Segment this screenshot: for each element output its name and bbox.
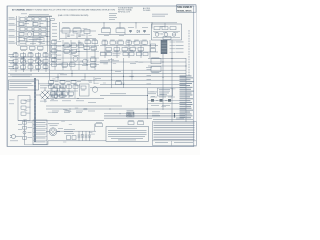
tube socket U1 [161,37,171,54]
wire: detector links [55,91,63,98]
tube V1 [27,32,31,36]
terminal label T2 [9,23,17,25]
note text right [143,7,151,12]
resistor R34 [91,47,97,51]
dial lamp table [33,120,47,145]
IF transformer Z1 [62,27,70,33]
wire: power chain [18,120,48,145]
bus labels [60,60,152,79]
capacitor C4 [27,28,32,31]
part number box [177,5,197,13]
capacitor C2 [41,18,46,21]
svg-text:IN OHMS: IN OHMS [143,10,151,12]
audio component grid [49,84,79,97]
bus drop ticks [58,70,133,84]
resistor R13 [60,88,66,91]
capacitor C12 [170,27,176,30]
label above table [153,118,193,121]
wire: riser x111 [110,58,113,88]
trimmer CT1 [155,33,159,37]
trimmer CT2 [164,33,168,37]
title text [12,8,115,11]
service table [153,122,197,146]
wire: bus y58 [148,58,186,60]
filter choke L6 [151,59,161,64]
wire loop left [18,96,30,121]
junction dots buses [163,58,187,78]
wire: riser x172 [171,40,173,122]
output transformer T4 [168,99,171,102]
wire grid audio [47,84,78,98]
tube V4 [73,55,79,61]
speaker labels row [150,96,175,99]
labels under y98 [50,101,96,103]
arrow labels [176,113,185,119]
wire: bus y73 [8,73,186,75]
bridge rectifier BR2 [46,123,63,135]
svg-text:MODEL 5R10C: MODEL 5R10C [177,10,192,12]
wire: bus y62 [50,61,186,63]
resistor R32 [71,50,77,54]
resistor R35 [62,63,68,68]
bridge rectifier BR1 [36,84,64,103]
wire: left riser [16,16,18,45]
wire: bus y70 [50,69,186,71]
terminal label T5 [9,41,17,43]
coupling loop [80,84,90,96]
capacitor C13 [52,94,58,97]
connector J2 [138,120,144,125]
coil L1 [20,18,25,21]
speaker lower labels [152,112,160,117]
capacitor C37 [60,81,70,84]
resistor R30 [78,43,84,48]
resistor R38 [71,81,81,84]
terminal label T3 [9,29,17,31]
capacitor C5 [41,28,46,31]
tube V6 [92,87,98,93]
capacitor C14 [60,94,66,97]
label row tuner bottom [20,42,45,45]
terminal label T4 [9,35,17,37]
svg-text:AT CHANNEL OSC: AT CHANNEL OSC [12,8,31,11]
resistor R12 [52,88,58,91]
wire: tuner riser [49,16,51,80]
switch position labels [52,111,95,113]
capacitor C9 [78,35,85,36]
wire: gnd rail [48,140,106,142]
coil L5 [162,27,168,30]
socket pin labels [170,42,184,53]
left lower labels [9,100,15,105]
wire: bus y106 [46,105,122,107]
notes box [106,127,149,142]
wire: bus y77 [8,76,186,78]
component row (detector) [102,40,148,52]
resistor R36 [91,64,97,68]
capacitor C8 [67,35,74,36]
resistor R31 [64,50,70,54]
capacitor C7 [30,46,36,50]
resistor R11 [151,67,161,72]
resistor R4 [19,33,24,36]
tube V2 [22,61,26,65]
rectifier box [94,122,102,131]
output transformer T3 [160,99,163,102]
capacitor C15 [21,100,26,103]
note text block [118,7,134,14]
trimmer CT3 [172,33,176,37]
wire: bus y109 [46,108,186,111]
svg-text:INPUT AC 117V: INPUT AC 117V [118,11,131,14]
capacitor C3 [33,23,44,26]
note text small [109,13,117,20]
resistor R14 [21,112,26,115]
tube V3 [38,61,42,65]
label stack left [9,54,15,69]
svg-text:SET TUNING GANG FULLY OPEN TH: SET TUNING GANG FULLY OPEN THE VOLTAGES … [30,8,115,11]
wire: osc internal [153,32,180,38]
capacitor C6 [41,33,46,36]
capacitor C31 [71,43,77,48]
resistor R33 [84,47,95,50]
wire: antenna bus [28,14,52,16]
capacitor C1 [34,18,39,21]
legend box [9,80,39,90]
subtitle text [21,14,89,18]
resistor R8 [84,30,90,34]
tube V5 [82,59,88,66]
resistor R7 [21,46,28,50]
resistor R19 [151,49,156,52]
wire: bus y80 [50,79,186,81]
wire: B+ rail [57,130,96,132]
component row y52 [101,53,149,56]
wire grid tuner [17,16,50,45]
wire: B+ top bus [62,22,177,28]
value annotations [15,20,178,142]
resistor R2 [20,28,25,31]
wire: riser x163 [162,54,164,110]
tuning gang cable [48,18,60,58]
wire: speaker bus2 [148,103,186,105]
resistor R16 [72,136,76,140]
capacitor C32 [85,39,91,44]
component stack (converter) [52,41,62,67]
resistor R18 [151,44,156,47]
resistor R5 [34,33,40,36]
dial lamp block [127,110,135,117]
svg-text:SCH-10294-B: SCH-10294-B [177,6,192,9]
parts list text [180,76,194,119]
resistor R3 [34,28,39,31]
capacitor C34 [70,62,76,67]
wire: bus y84 [100,84,186,86]
resistor R9 [102,27,111,33]
diode D1 [137,30,139,33]
plug P2 [10,135,22,142]
labels lower-left [27,101,31,114]
coil L2 [27,18,32,21]
wire grid IF [10,52,50,72]
resistor R10 [116,27,125,33]
power transformer labels [64,129,75,134]
wire: bus y118 [104,118,152,120]
svg-text:(DIAL CORD STRINGING SHOWN): (DIAL CORD STRINGING SHOWN) [58,14,89,17]
pilot lamp P1 [23,131,26,134]
oscillator box [152,24,182,40]
wire grid mid-right [100,40,158,58]
voltage labels [100,61,119,64]
wire: mid-top bus [60,31,96,39]
wire: bus y120 [18,120,104,122]
fuse F1 [23,122,27,125]
wire: bus y87 [90,87,186,89]
connector J1 [128,120,134,125]
wire: bus y66 [148,65,186,67]
terminal label T1 [9,17,17,19]
label: wave trap [152,14,168,17]
resistor R1 [19,23,29,26]
wire: tone arrows [104,113,176,118]
filter capacitors C20-C23 [78,131,91,141]
resistor R17 [116,80,122,85]
capacitor C11 [142,27,148,33]
resistor R15 [67,136,71,140]
capacitor C10 [128,27,134,33]
wire: bus y95 [100,93,148,95]
capacitor C33 [92,39,98,44]
bus end labels [147,69,152,84]
IF transformer Z2 [73,27,81,33]
component grid (IF strip) [13,52,48,70]
resistor R37 [81,86,86,90]
coil box L3 [27,38,44,42]
label: terminal strip [10,75,32,78]
wire: riser x186 [185,58,187,122]
shield line [34,78,36,142]
wire: speaker bus1 [148,99,180,102]
resistor R6 [19,38,25,41]
wire: riser x123 [122,58,125,88]
capacitor C36 [49,81,59,84]
wire: bus y98 [46,97,104,100]
capacitor C16 [21,106,26,109]
switch S1 [23,127,27,130]
coil L4 [154,27,160,30]
capacitor C35 [91,57,97,62]
vertical note text [188,30,191,76]
wire: mid-right link [98,33,150,36]
output transformer T2 [151,99,154,102]
capacitor C30 [64,43,70,48]
label: speaker text [148,88,173,96]
plug PL1 [23,137,27,140]
capacitor C8b [38,46,44,50]
wire: riser x147 [146,88,149,119]
wire grid center [50,40,99,70]
speaker sub labels [151,104,170,107]
